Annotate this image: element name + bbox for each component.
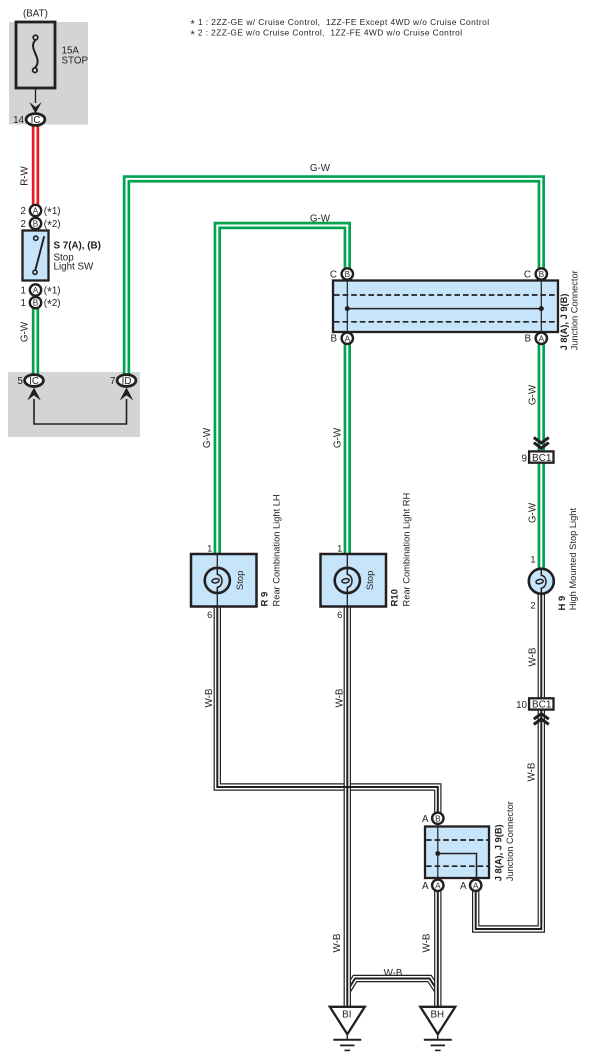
svg-text:A: A xyxy=(460,881,467,892)
svg-text:Rear Combination Light LH: Rear Combination Light LH xyxy=(272,494,282,606)
svg-text:2: 2 xyxy=(530,601,535,611)
svg-text:S 7(A), (B): S 7(A), (B) xyxy=(54,240,101,251)
svg-text:C: C xyxy=(330,269,337,280)
svg-text:A: A xyxy=(539,334,545,343)
svg-text:R 9: R 9 xyxy=(260,592,271,607)
svg-text:G-W: G-W xyxy=(310,163,331,174)
svg-text:1: 1 xyxy=(21,298,26,309)
svg-text:W-B: W-B xyxy=(422,933,433,952)
svg-text:A: A xyxy=(345,334,351,343)
svg-text:B: B xyxy=(330,334,337,345)
svg-text:(*2): (*2) xyxy=(44,298,61,312)
svg-text:G-W: G-W xyxy=(333,427,344,448)
svg-text:1: 1 xyxy=(21,285,26,296)
svg-text:W-B: W-B xyxy=(204,688,215,707)
svg-text:Light SW: Light SW xyxy=(54,262,95,273)
svg-text:ID: ID xyxy=(122,376,132,387)
svg-text:1: 1 xyxy=(530,555,535,565)
svg-text:R-W: R-W xyxy=(20,165,31,185)
svg-text:BI: BI xyxy=(342,1010,351,1021)
svg-text:B: B xyxy=(435,814,441,823)
svg-text:* 2 : 2ZZ-GE w/o Cruise Contro: * 2 : 2ZZ-GE w/o Cruise Control, 1ZZ-FE … xyxy=(191,28,463,41)
svg-text:9: 9 xyxy=(522,453,527,464)
svg-text:A: A xyxy=(422,814,429,825)
svg-text:6: 6 xyxy=(207,610,212,620)
svg-text:(*1): (*1) xyxy=(44,206,61,220)
svg-text:G-W: G-W xyxy=(202,427,213,448)
svg-text:A: A xyxy=(473,881,479,890)
svg-text:G-W: G-W xyxy=(527,502,538,523)
svg-text:W-B: W-B xyxy=(384,968,403,979)
svg-text:BH: BH xyxy=(430,1010,444,1021)
svg-text:High Mounted Stop Light: High Mounted Stop Light xyxy=(568,508,578,611)
svg-text:Junction Connector: Junction Connector xyxy=(505,801,515,881)
svg-text:B: B xyxy=(33,299,39,308)
svg-text:B: B xyxy=(345,270,351,279)
svg-text:Stop: Stop xyxy=(235,571,246,591)
svg-text:14: 14 xyxy=(13,115,24,126)
svg-text:A: A xyxy=(422,881,429,892)
svg-text:1: 1 xyxy=(337,544,342,554)
svg-text:Rear Combination Light RH: Rear Combination Light RH xyxy=(402,493,412,607)
svg-text:Stop: Stop xyxy=(365,571,376,591)
svg-text:J 8(A), J 9(B): J 8(A), J 9(B) xyxy=(559,294,569,351)
svg-text:A: A xyxy=(33,286,39,295)
svg-text:IC: IC xyxy=(29,376,39,387)
svg-text:7: 7 xyxy=(110,376,115,387)
svg-text:R10: R10 xyxy=(390,589,401,606)
svg-text:W-B: W-B xyxy=(527,647,538,666)
svg-text:B: B xyxy=(539,270,545,279)
svg-text:5: 5 xyxy=(18,376,24,387)
svg-text:G-W: G-W xyxy=(527,384,538,405)
svg-text:B: B xyxy=(524,334,531,345)
svg-text:BC1: BC1 xyxy=(532,453,552,464)
svg-text:10: 10 xyxy=(516,700,527,711)
svg-text:B: B xyxy=(33,220,39,229)
svg-text:G-W: G-W xyxy=(310,213,331,224)
svg-text:H 9: H 9 xyxy=(557,596,568,611)
svg-text:BC1: BC1 xyxy=(532,700,552,711)
svg-text:G-W: G-W xyxy=(20,321,31,342)
svg-text:C: C xyxy=(524,269,531,280)
svg-text:1: 1 xyxy=(207,544,212,554)
svg-text:A: A xyxy=(33,207,39,216)
svg-text:Junction Connector: Junction Connector xyxy=(570,270,580,350)
svg-text:W-B: W-B xyxy=(332,933,343,952)
svg-text:2: 2 xyxy=(21,206,26,217)
svg-text:2: 2 xyxy=(21,219,26,230)
svg-text:W-B: W-B xyxy=(527,762,538,781)
svg-text:(BAT): (BAT) xyxy=(23,9,48,20)
svg-text:6: 6 xyxy=(337,610,342,620)
svg-text:STOP: STOP xyxy=(62,56,89,67)
svg-text:W-B: W-B xyxy=(335,688,346,707)
svg-text:IC: IC xyxy=(31,115,41,126)
svg-text:J 8(A), J 9(B): J 8(A), J 9(B) xyxy=(493,824,503,881)
svg-text:A: A xyxy=(435,881,441,890)
